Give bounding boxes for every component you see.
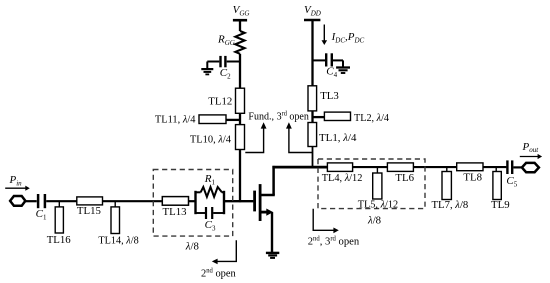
svg-text:TL4, λ/12: TL4, λ/12 [322,172,363,184]
svg-text:TL10, λ/4: TL10, λ/4 [190,134,232,146]
svg-text:TL6: TL6 [395,172,414,184]
svg-text:TL11, λ/4: TL11, λ/4 [155,114,196,126]
svg-text:TL8: TL8 [463,171,482,183]
svg-text:TL16: TL16 [47,234,72,246]
svg-text:Fund., 3rd open: Fund., 3rd open [248,110,309,122]
svg-text:λ/8: λ/8 [367,214,381,226]
svg-text:TL13: TL13 [163,206,187,218]
svg-text:TL7, λ/8: TL7, λ/8 [432,199,469,211]
svg-text:TL12: TL12 [208,95,232,107]
svg-text:TL3: TL3 [320,90,339,102]
svg-text:TL15: TL15 [77,205,101,217]
svg-text:λ/8: λ/8 [185,241,199,253]
svg-text:TL9: TL9 [491,199,510,211]
svg-text:TL2, λ/4: TL2, λ/4 [354,112,390,124]
svg-text:TL14, λ/8: TL14, λ/8 [98,234,138,246]
svg-text:TL5, λ/12: TL5, λ/12 [358,198,399,210]
svg-text:TL1, λ/4: TL1, λ/4 [319,132,357,144]
